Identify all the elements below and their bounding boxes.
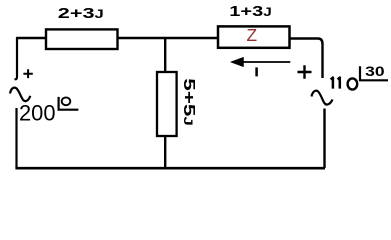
wire top middle horizontal	[117, 37, 218, 39]
wire right vertical lower	[323, 109, 325, 169]
wire left vertical lower	[15, 108, 17, 168]
svg-text:30: 30	[365, 64, 385, 79]
degree 0 of V1 angle	[62, 97, 71, 105]
plus sign of source V2	[298, 65, 312, 78]
label I	[255, 67, 258, 76]
angle symbol of V2	[359, 66, 388, 81]
bottom wire	[15, 167, 325, 170]
wire top-left horizontal	[17, 37, 46, 39]
svg-text:5+5J: 5+5J	[180, 78, 197, 126]
label 110 digit 0	[348, 78, 358, 89]
angle symbol of V1	[58, 97, 79, 111]
wire left vertical upper	[15, 37, 18, 79]
resistor box 2+3J	[46, 29, 118, 49]
label 110 digit 1	[338, 78, 340, 89]
impedance box 5+5J	[157, 72, 177, 136]
label 110 digit 1	[331, 78, 333, 89]
impedance box Z	[218, 26, 290, 47]
svg-text:Z: Z	[247, 25, 258, 45]
AC source V2 sine symbol	[312, 91, 333, 105]
AC source V1 sine symbol	[10, 88, 30, 101]
wire middle branch upper	[164, 38, 166, 73]
wire middle branch lower	[164, 136, 166, 168]
svg-text:200: 200	[19, 101, 56, 126]
wire right horizontal with corner	[290, 39, 323, 79]
current arrow I	[239, 61, 290, 63]
plus sign of source V1	[23, 69, 32, 78]
